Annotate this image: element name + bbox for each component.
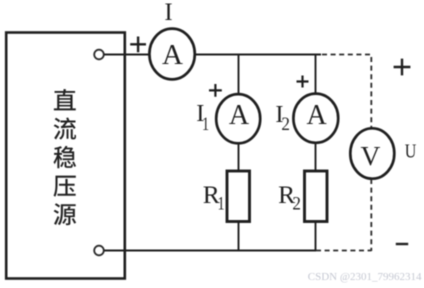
label text: 源 (part of 直流稳压源 DC regulated supply) bbox=[54, 203, 77, 225]
label text: 压 (part of 直流稳压源 DC regulated supply) bbox=[53, 176, 75, 197]
voltmeter V bbox=[350, 128, 394, 178]
svg-text:1: 1 bbox=[202, 113, 209, 134]
svg-text:A: A bbox=[162, 39, 183, 71]
wire: branch node 2 vertical to ammeter A2 bbox=[315, 55, 317, 94]
wire: ammeter A to branch node 2 (top bus) bbox=[195, 54, 321, 56]
dashed wire: bottom bus to voltmeter corner bbox=[316, 250, 371, 252]
wire: resistor R1 to bottom bus bbox=[238, 222, 240, 251]
svg-text:V: V bbox=[360, 140, 380, 171]
dashed wire: corner down to voltmeter top bbox=[370, 57, 372, 129]
plus sign at supply output bbox=[130, 37, 146, 53]
ammeter A1 bbox=[216, 94, 260, 143]
resistor R1 bbox=[227, 171, 250, 222]
wire: ammeter A2 to resistor R2 bbox=[315, 143, 317, 171]
svg-text:U: U bbox=[405, 140, 417, 162]
wire: branch node 1 vertical to ammeter A1 bbox=[238, 55, 240, 95]
svg-text:I: I bbox=[164, 0, 172, 26]
dashed wire: top bus to voltmeter corner bbox=[322, 54, 371, 56]
plus sign at voltmeter (top right) bbox=[394, 59, 411, 76]
svg-text:A: A bbox=[229, 100, 250, 131]
ammeter A (main) bbox=[149, 29, 194, 80]
label text: 直 (part of 直流稳压源 DC regulated supply) bbox=[54, 89, 76, 110]
plus sign at ammeter A2 bbox=[297, 76, 309, 88]
svg-text:2: 2 bbox=[292, 192, 301, 213]
wire: ammeter A1 to resistor R1 bbox=[238, 143, 240, 171]
terminal bottom (-) of supply bbox=[94, 246, 104, 256]
svg-text:CSDN @2301_79962314: CSDN @2301_79962314 bbox=[308, 271, 422, 283]
terminal top (+) of supply bbox=[94, 50, 104, 60]
plus sign at ammeter A1 bbox=[209, 84, 222, 97]
svg-text:A: A bbox=[306, 100, 327, 131]
svg-text:2: 2 bbox=[281, 113, 290, 134]
svg-text:1: 1 bbox=[217, 192, 224, 213]
label text: 稳 (part of 直流稳压源 DC regulated supply) bbox=[53, 146, 76, 168]
minus sign at voltmeter (bottom right) bbox=[396, 243, 408, 245]
DC regulated power supply box bbox=[6, 33, 125, 279]
dashed wire: voltmeter bottom down to corner bbox=[370, 179, 372, 251]
wire: bottom bus from terminal to R2 branch bbox=[104, 250, 316, 252]
wire: resistor R2 to bottom bus bbox=[315, 222, 317, 251]
label text: 流 (part of 直流稳压源 DC regulated supply) bbox=[54, 117, 76, 139]
ammeter A2 bbox=[293, 94, 338, 143]
wire: top terminal to ammeter A bbox=[104, 54, 150, 56]
resistor R2 bbox=[305, 171, 328, 222]
